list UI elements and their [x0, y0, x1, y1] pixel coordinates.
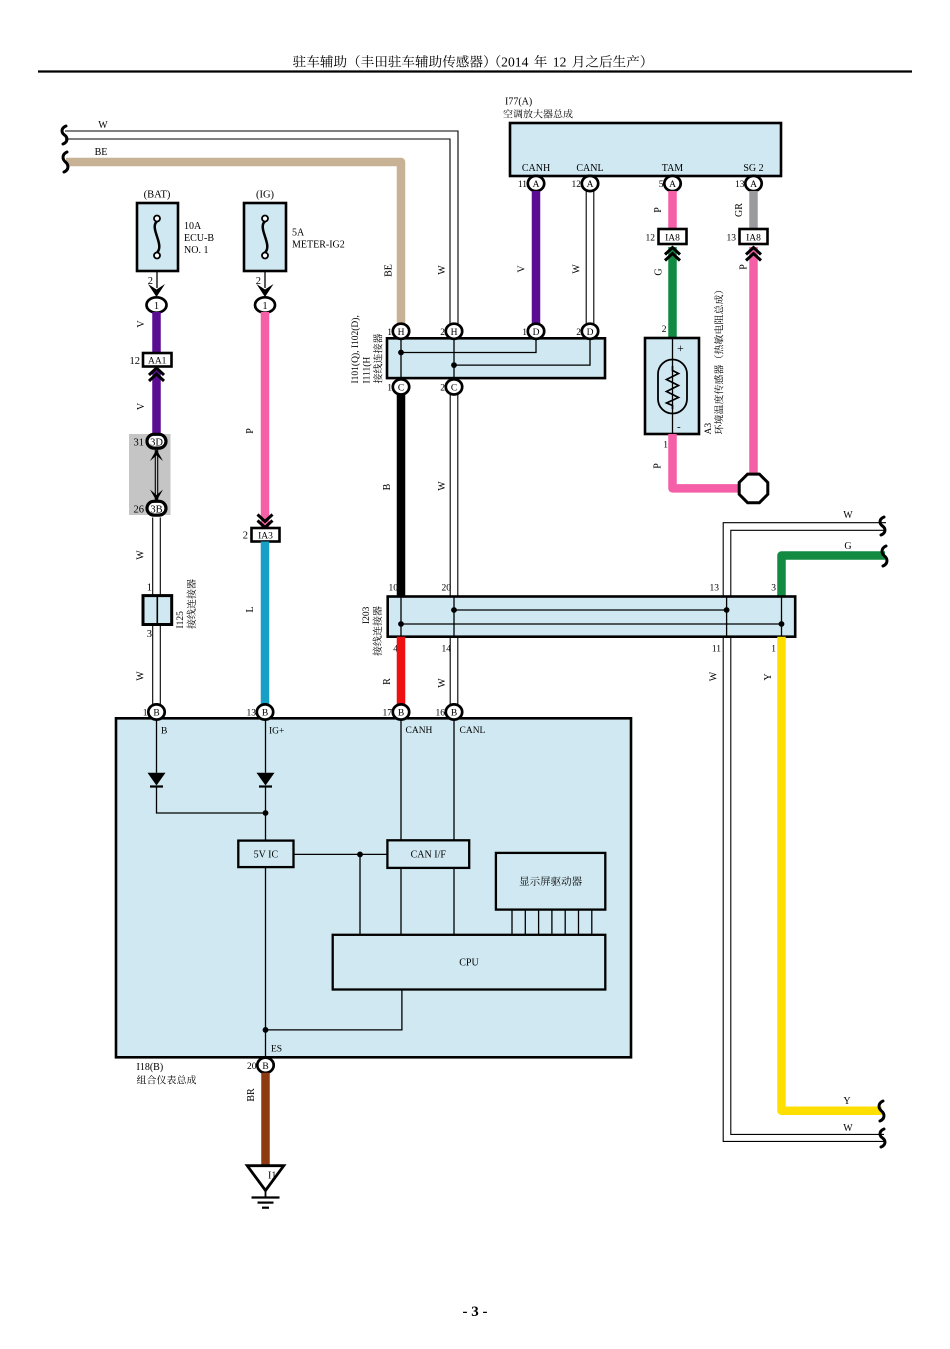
svg-text:AA1: AA1: [148, 357, 167, 367]
wire Y yellow from pin 1 to break: [782, 637, 883, 1111]
svg-text:W: W: [843, 510, 853, 521]
wire W from 3B to I125: [153, 518, 161, 596]
svg-text:W: W: [136, 550, 147, 560]
arrow down: [150, 490, 163, 502]
pin 12 A: [582, 176, 598, 191]
wire V from pin1 to AA1: [152, 312, 161, 353]
svg-text:3B: 3B: [150, 505, 162, 516]
svg-text:CAN I/F: CAN I/F: [411, 850, 447, 861]
pin 1 H: [393, 324, 409, 339]
svg-text:B: B: [153, 709, 159, 719]
svg-text:TAM: TAM: [662, 163, 684, 174]
svg-text:I111(H: I111(H: [362, 357, 373, 384]
svg-text:1: 1: [387, 384, 392, 394]
svg-text:+: +: [677, 341, 684, 355]
svg-text:C: C: [398, 384, 404, 394]
svg-text:1: 1: [147, 583, 152, 594]
svg-text:2: 2: [662, 325, 667, 335]
pin 11 A: [528, 176, 544, 191]
wire W CANL down: [586, 191, 594, 324]
wire dot to CPU: [359, 854, 361, 934]
svg-text:2: 2: [576, 328, 581, 338]
svg-text:A: A: [533, 180, 540, 190]
svg-text:31: 31: [134, 438, 145, 449]
wire W from 2C down: [450, 395, 458, 597]
ECU I77 air conditioning amplifier: [510, 123, 781, 176]
svg-text:显示屏驱动器: 显示屏驱动器: [519, 876, 582, 888]
svg-text:16: 16: [436, 709, 446, 719]
wire from F2: [264, 271, 266, 288]
svg-text:12: 12: [130, 356, 141, 367]
svg-text:H: H: [398, 328, 405, 338]
svg-text:C: C: [451, 384, 457, 394]
svg-text:W: W: [572, 264, 583, 274]
wire CANH to CPU: [400, 868, 402, 935]
wire G right side from break to I203 pin 3: [782, 556, 886, 597]
shield octagon node: [739, 474, 768, 503]
svg-text:BE: BE: [95, 147, 108, 158]
svg-text:W: W: [437, 678, 448, 688]
svg-text:W: W: [136, 671, 147, 681]
svg-text:B: B: [398, 709, 404, 719]
svg-text:1: 1: [262, 301, 267, 312]
wire GR SG-2 down: [749, 191, 758, 229]
node 26 (3B): [147, 501, 166, 515]
pin 1 D: [528, 324, 544, 339]
svg-text:5: 5: [659, 180, 664, 190]
pin 1 C: [393, 379, 409, 394]
svg-text:接线连接器: 接线连接器: [372, 606, 384, 656]
svg-text:B: B: [262, 709, 268, 719]
svg-text:20: 20: [247, 1062, 257, 1072]
svg-text:1: 1: [387, 328, 392, 338]
break symbol bottom Y: [879, 1101, 884, 1121]
svg-text:W: W: [437, 265, 448, 275]
svg-text:13: 13: [735, 180, 745, 190]
svg-text:3: 3: [771, 584, 776, 594]
wire P TAM down: [668, 191, 677, 229]
svg-text:I1: I1: [268, 1171, 276, 1182]
svg-text:1: 1: [771, 645, 776, 655]
wire CANL to CPU: [453, 868, 455, 935]
svg-text:A: A: [669, 180, 676, 190]
wire from F1 to connector: [156, 271, 158, 288]
svg-text:D: D: [587, 328, 594, 338]
wire from D2 to 5V IC: [265, 788, 267, 841]
chevron marks below IA8 (SG-2): [746, 248, 761, 261]
wire between 3D and 3B: [155, 449, 157, 502]
diode D2: [257, 773, 275, 787]
svg-text:环境温度传感器（热敏电阻总成）: 环境温度传感器（热敏电阻总成）: [714, 285, 726, 435]
break symbol left BE: [63, 152, 68, 172]
sensor A3 thermistor box: [645, 338, 699, 434]
svg-text:- 3 -: - 3 -: [463, 1304, 488, 1320]
svg-text:20: 20: [442, 584, 452, 594]
svg-text:12: 12: [646, 234, 656, 244]
svg-text:NO. 1: NO. 1: [184, 245, 208, 256]
svg-text:3D: 3D: [150, 438, 163, 449]
block CPU: [333, 935, 606, 990]
svg-text:IA8: IA8: [665, 234, 680, 244]
svg-text:GR: GR: [734, 203, 745, 217]
fuse F1 10A ECU-B NO.1: [137, 203, 178, 271]
svg-text:空调放大器总成: 空调放大器总成: [503, 109, 573, 121]
svg-text:V: V: [517, 265, 528, 273]
svg-text:B: B: [161, 727, 167, 737]
junction connector I203: [388, 597, 796, 637]
wire G down to thermistor: [668, 247, 677, 338]
svg-text:B: B: [262, 1062, 268, 1072]
svg-text:P: P: [653, 207, 664, 213]
arrow up: [150, 450, 163, 462]
wire W top-left horizontal: [65, 131, 458, 332]
svg-text:驻车辅助（丰田驻车辅助传感器）（2014 年 12 月之后生: 驻车辅助（丰田驻车辅助传感器）（2014 年 12 月之后生产）: [293, 55, 654, 70]
svg-text:I101(Q), I102(D),: I101(Q), I102(D),: [350, 315, 361, 383]
junction connector I125: [143, 596, 172, 625]
wire CANL internal: [453, 719, 455, 840]
wire L from IA3 to pin 13B: [261, 542, 270, 705]
svg-text:11: 11: [518, 180, 527, 190]
wire BR brown to ground: [261, 1073, 270, 1166]
connector AA1: [143, 353, 172, 367]
junction dot ES: [263, 1027, 269, 1033]
pin 13 A: [745, 176, 761, 191]
svg-text:11: 11: [712, 645, 721, 655]
block 5V IC: [238, 841, 293, 868]
wire BE beige: [66, 162, 401, 333]
svg-text:2: 2: [440, 328, 445, 338]
svg-text:5V IC: 5V IC: [254, 850, 279, 861]
svg-text:2: 2: [440, 384, 445, 394]
fuse F2 5A METER-IG2: [244, 203, 286, 271]
wire P down to shield octagon: [749, 247, 758, 474]
pin 13 B: [257, 704, 273, 719]
title rule: [38, 70, 912, 72]
svg-text:1: 1: [663, 441, 668, 451]
svg-text:Y: Y: [763, 673, 774, 680]
svg-text:接线连接器: 接线连接器: [373, 334, 385, 384]
svg-text:SG 2: SG 2: [743, 163, 763, 174]
diode D1: [148, 773, 166, 787]
svg-text:B: B: [451, 709, 457, 719]
svg-text:IG+: IG+: [269, 727, 284, 737]
svg-text:Y: Y: [843, 1096, 850, 1107]
ECU I18(B) combination meter box: [116, 718, 631, 1057]
svg-text:CANH: CANH: [406, 726, 433, 736]
svg-text:METER-IG2: METER-IG2: [292, 240, 345, 251]
svg-text:BE: BE: [384, 264, 395, 277]
chevron marks below IA8 (TAM): [665, 248, 680, 261]
svg-text:BR: BR: [246, 1088, 257, 1102]
svg-text:A3: A3: [704, 423, 714, 435]
junction dot: [357, 852, 363, 858]
break symbol left W: [62, 126, 67, 144]
chevron marks above IA3: [258, 515, 273, 528]
svg-text:5A: 5A: [292, 228, 305, 239]
svg-text:-: -: [677, 421, 681, 433]
pin 5 A: [664, 176, 680, 191]
svg-text:V: V: [136, 402, 147, 410]
connector IA8 pin12: [659, 229, 687, 244]
pin 17 B: [393, 704, 409, 719]
svg-text:1: 1: [522, 328, 527, 338]
block CAN I/F: [387, 840, 469, 868]
svg-text:W: W: [98, 120, 108, 131]
svg-text:CANL: CANL: [576, 163, 603, 174]
svg-text:D: D: [533, 328, 540, 338]
svg-text:CANH: CANH: [522, 163, 550, 174]
wire 5V IC to CAN I/F: [294, 853, 388, 855]
svg-text:12: 12: [572, 180, 582, 190]
wire CANH internal: [400, 719, 402, 840]
chevron marks below AA1: [149, 368, 164, 381]
wire B black down: [397, 395, 406, 597]
svg-text:W: W: [709, 671, 720, 681]
junction dot: [263, 810, 269, 816]
svg-text:H: H: [451, 328, 458, 338]
svg-text:A: A: [750, 180, 757, 190]
svg-text:26: 26: [134, 505, 145, 516]
junction connector I101/I102/I111: [387, 338, 605, 378]
svg-text:组合仪表总成: 组合仪表总成: [137, 1075, 197, 1087]
svg-text:10: 10: [389, 584, 399, 594]
wire V from AA1 to 3D: [152, 370, 161, 434]
break symbol right G: [882, 546, 887, 566]
svg-text:IA8: IA8: [746, 234, 761, 244]
svg-text:CANL: CANL: [460, 726, 486, 736]
arrow down F1: [148, 284, 165, 297]
wire W from I125 to pin 1B: [153, 625, 161, 705]
svg-text:P: P: [245, 428, 256, 434]
connector IA3: [252, 528, 280, 542]
svg-text:P: P: [653, 463, 664, 469]
wire R red down to CANH pin: [397, 637, 406, 705]
svg-text:I203: I203: [362, 606, 372, 624]
ground I1: [247, 1166, 284, 1208]
svg-text:W: W: [437, 481, 448, 491]
wire W down to CANL pin: [450, 637, 458, 705]
svg-text:13: 13: [247, 709, 257, 719]
pin 2 D: [582, 324, 598, 339]
svg-text:17: 17: [383, 709, 393, 719]
connector IA8 pin13: [740, 229, 768, 244]
svg-text:P: P: [739, 264, 750, 270]
svg-text:I125: I125: [176, 611, 186, 629]
wire P from A3 to octagon: [673, 434, 740, 488]
wire from D1 to junction: [157, 788, 266, 814]
svg-text:W: W: [843, 1123, 853, 1134]
svg-text:ES: ES: [271, 1045, 282, 1055]
svg-text:I18(B): I18(B): [137, 1062, 164, 1073]
svg-text:ECU-B: ECU-B: [184, 233, 214, 244]
connector pin 1 (BAT column): [147, 297, 167, 312]
break symbol bottom W: [880, 1129, 885, 1147]
svg-text:I77(A): I77(A): [505, 97, 532, 108]
break symbol right W: [880, 517, 885, 535]
pin 2 C: [446, 379, 462, 394]
wire IG+ internal: [265, 719, 267, 773]
arrow down F2: [257, 284, 274, 297]
wire W right side from break to I203 pin 13: [723, 523, 886, 597]
svg-text:2: 2: [243, 531, 248, 542]
node 31 (3D): [147, 434, 166, 448]
wire W right down from pin 11 to bottom break: [723, 637, 884, 1142]
svg-text:13: 13: [710, 584, 720, 594]
svg-text:13: 13: [727, 234, 737, 244]
svg-text:2: 2: [148, 276, 153, 287]
pin 1 B: [148, 704, 164, 719]
wire 5V IC down to pin 20: [265, 867, 267, 1057]
svg-text:1: 1: [143, 709, 148, 719]
svg-text:(BAT): (BAT): [144, 190, 171, 201]
svg-text:G: G: [654, 268, 665, 275]
svg-text:3: 3: [147, 629, 152, 640]
connector pin 1 (IG column): [255, 297, 275, 312]
wire CPU to ES: [266, 990, 402, 1030]
svg-text:IA3: IA3: [258, 532, 273, 542]
display driver pin wires: [512, 910, 592, 935]
wire B internal: [156, 719, 158, 773]
svg-text:接线连接器: 接线连接器: [186, 579, 198, 629]
svg-text:V: V: [136, 320, 147, 328]
svg-text:CPU: CPU: [459, 958, 479, 969]
pin 2 H: [446, 324, 462, 339]
pin 20 B: [257, 1058, 273, 1073]
wire V CANH down: [532, 191, 541, 324]
pin 16 B: [446, 704, 462, 719]
svg-text:B: B: [382, 483, 393, 490]
svg-text:(IG): (IG): [256, 190, 275, 201]
block display driver: [496, 853, 605, 910]
gray block (shield): [129, 434, 171, 515]
svg-text:10A: 10A: [184, 221, 202, 232]
svg-text:A: A: [587, 180, 594, 190]
svg-text:1: 1: [154, 301, 159, 312]
svg-text:L: L: [245, 606, 256, 612]
wire P from IG pin1 to IA3: [261, 312, 270, 527]
svg-text:R: R: [382, 678, 393, 685]
svg-text:G: G: [844, 541, 851, 552]
